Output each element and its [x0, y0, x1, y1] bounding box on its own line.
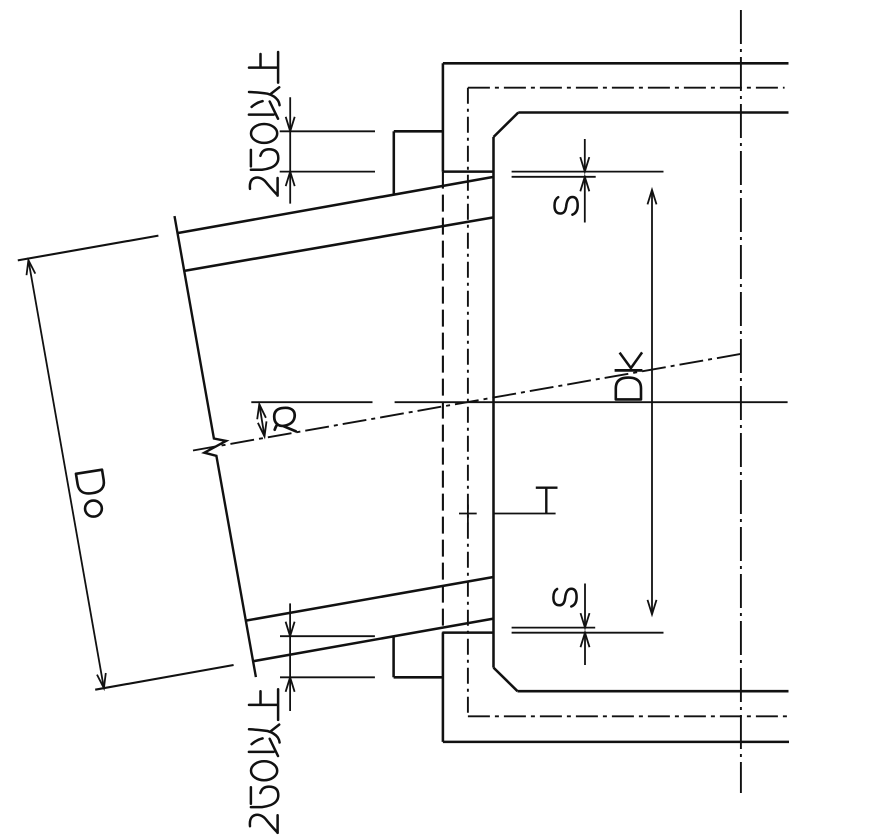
shell mid centerline top (dash-dot) — [468, 87, 785, 89]
tank inner wall top chamfer — [494, 113, 519, 138]
dimension S top: arrows — [580, 139, 589, 223]
pipe top inner line — [185, 217, 494, 270]
label H (rotated, hand drawn) — [536, 488, 558, 514]
pipe top outer extension line (left of break) — [18, 236, 159, 261]
dimension S bottom: short extension line — [512, 627, 596, 629]
label S top (rotated, hand drawn) — [555, 197, 578, 215]
label Do (rotated, hand drawn) — [76, 470, 104, 517]
pipe axis centerline (dash-dot, slanted) — [193, 354, 741, 451]
nozzle reinforcement pad bottom, left edge — [392, 636, 395, 677]
tank inner wall top line — [518, 111, 788, 114]
dimension Dk line with outward arrows — [648, 190, 657, 615]
tank outer wall top line — [443, 62, 789, 65]
dimension 250-ijo top: second extension line — [280, 171, 375, 173]
dimension 250-ijo top: first extension line — [280, 130, 375, 132]
label Dk (rotated, hand drawn) — [615, 352, 643, 399]
nozzle reinforcement pad top, top edge — [394, 130, 443, 133]
nozzle reinforcement pad bottom, bottom edge — [394, 676, 443, 679]
dimension 250-ijo bottom: first extension line — [280, 635, 375, 637]
dimension S top: short extension line — [512, 176, 596, 178]
tank outer wall left hidden (dashed through opening) — [442, 172, 444, 633]
dimension 250-ijo bottom: arrows — [286, 603, 295, 711]
pipe bottom inner line — [247, 577, 494, 621]
dimension S top: long extension line — [512, 171, 664, 173]
label 250以上 top (rotated text, hand drawn strokes) — [249, 52, 280, 196]
shell mid centerline bottom (dash-dot) — [468, 715, 789, 717]
label S bottom (copy) — [553, 589, 576, 607]
Do dimension line with arrows — [27, 260, 106, 688]
dimension 250-ijo top: arrows — [286, 97, 295, 203]
tank inner wall bottom line — [518, 690, 789, 693]
tank outer wall bottom line — [443, 741, 789, 744]
tank vertical centerline (dash-dot) — [740, 10, 742, 793]
alpha angle double arrow — [257, 404, 266, 436]
dimension S bottom: arrows — [581, 584, 590, 666]
pipe bottom outer line — [254, 619, 494, 662]
label 250以上 bottom (copy of top shifted down) — [249, 689, 280, 833]
dimension S bottom: long extension line — [512, 632, 664, 634]
pipe bottom outer extension line (left of break) — [95, 665, 233, 690]
opening bottom edge — [443, 631, 494, 634]
dimension 250-ijo bottom: second extension line — [280, 676, 375, 678]
label alpha (rotated, hand drawn) — [274, 408, 296, 432]
horizontal axis reference line right segment — [395, 401, 788, 403]
nozzle reinforcement pad top, left edge — [393, 131, 396, 194]
horizontal axis reference line left segment — [251, 401, 372, 403]
shell mid centerline left (dash-dot) — [467, 88, 469, 717]
pipe top outer line — [178, 177, 494, 233]
center cross mark on shell centerline — [459, 505, 477, 523]
tank outer wall left line upper solid — [442, 63, 445, 171]
tank inner wall bottom chamfer — [494, 668, 518, 692]
pipe break line with zigzag — [175, 216, 256, 677]
H leader line — [494, 513, 556, 515]
tank outer wall left line lower solid — [442, 633, 445, 742]
opening top edge — [443, 170, 494, 173]
tank inner wall left line / pipe end face — [492, 137, 495, 668]
